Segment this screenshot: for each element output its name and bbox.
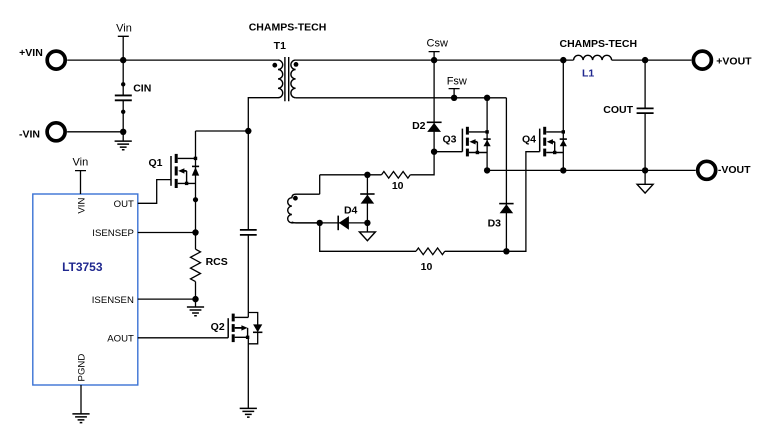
Q1 body diode — [192, 165, 199, 167]
wire secondary top rail (Csw) — [296, 59, 574, 61]
terminal -VOUT — [698, 161, 751, 179]
junction aux bottom / gate pulldown — [317, 220, 323, 226]
wire Q4 gate line (resistor to gate) — [445, 152, 540, 252]
svg-text:Csw: Csw — [427, 37, 448, 49]
junction Q3 source / -VOUT rail — [484, 167, 490, 173]
capacitor CIN — [115, 60, 151, 132]
wire Csw node down through D2 — [433, 60, 435, 152]
Q1 body arrow — [178, 168, 184, 173]
wire D2 node to Q3 gate — [434, 151, 462, 153]
junction Fsw — [451, 95, 457, 101]
Q3 body diode — [484, 138, 491, 140]
svg-text:Fsw: Fsw — [447, 76, 467, 88]
Q2 drain tap — [235, 316, 249, 318]
svg-text:Q2: Q2 — [211, 321, 225, 333]
Q2 source tap — [235, 336, 249, 338]
svg-text:ISENSEP: ISENSEP — [92, 228, 134, 239]
junction top line / clamp diode — [364, 172, 370, 178]
wire AOUT to Q2 gate — [138, 337, 228, 339]
wire Fsw corner down through D3 — [505, 98, 507, 252]
node Fsw — [447, 76, 467, 98]
svg-text:D3: D3 — [488, 217, 502, 229]
Q3 drain tap — [469, 131, 487, 133]
wire RCS bottom to ISENSEN/ground — [195, 282, 197, 307]
svg-text:-VOUT: -VOUT — [718, 164, 751, 176]
Q4 body tie — [554, 142, 556, 153]
aux winding (secondary bias) — [288, 194, 320, 223]
resistor 10 (Q4 gate) — [416, 248, 445, 273]
svg-text:Q3: Q3 — [442, 133, 456, 145]
T1 primary winding — [278, 60, 283, 98]
op-amp/controller U1 LT3753 — [33, 194, 138, 385]
Q1 body tie — [186, 171, 188, 184]
ground (open, output) — [644, 170, 646, 184]
svg-text:10: 10 — [392, 180, 404, 192]
wire gate network top line — [320, 174, 382, 176]
Q2 body tie — [247, 328, 249, 337]
node Csw — [427, 37, 448, 60]
Q4 channel bars — [543, 127, 546, 135]
junction -VOUT rail / COUT / ground — [642, 167, 648, 173]
Q4 source tap — [546, 152, 563, 154]
svg-text:Vin: Vin — [116, 23, 132, 35]
wire L1 to +VOUT — [612, 59, 692, 61]
resistor 10 (Q3 gate) — [382, 172, 411, 193]
svg-text:+VOUT: +VOUT — [716, 56, 752, 68]
svg-text:LT3753: LT3753 — [62, 260, 103, 274]
wire Q3 drain-source vertical — [486, 98, 488, 171]
junction +VOUT rail / COUT — [642, 57, 648, 63]
Q3 channel bars — [466, 127, 469, 135]
wire aux bottom lead through D4 — [292, 222, 368, 224]
wire ISENSEP to RCS top — [138, 232, 196, 234]
svg-text:OUT: OUT — [114, 199, 134, 210]
wire -VIN to CIN bottom — [67, 131, 123, 133]
Q1 source tap — [178, 182, 196, 184]
Q2 body arrow (points right) — [235, 327, 242, 329]
wire -VOUT rail — [487, 169, 696, 171]
svg-text:10: 10 — [421, 261, 433, 273]
svg-text:Q1: Q1 — [148, 157, 162, 169]
capacitor COUT — [603, 60, 653, 170]
terminal -VIN — [19, 123, 65, 141]
transistor Q2 (auxiliary MOSFET) — [211, 313, 263, 344]
Q1 drain tap — [178, 157, 196, 159]
Q3 gate line — [461, 129, 463, 152]
terminal +VIN — [19, 47, 65, 69]
junction D3 anode / gate resistor line — [503, 248, 509, 254]
ground (Q2 source) — [240, 408, 257, 417]
wire aux top lead up to gate network — [319, 175, 321, 194]
junction Q4 source / -VOUT rail — [560, 167, 566, 173]
svg-text:L1: L1 — [582, 67, 594, 79]
ground (open, gate network) — [366, 223, 368, 232]
Q2 gate line — [227, 318, 229, 338]
Q2 body diode branch — [248, 313, 257, 344]
wire snubber leg down to capacitor and Q2 — [247, 131, 249, 317]
node Q1 source dot — [193, 197, 198, 202]
svg-text:ISENSEN: ISENSEN — [92, 295, 134, 306]
aux winding dot — [293, 196, 298, 201]
wire OUT to Q1 gate — [138, 180, 171, 204]
wire Q2 source to ground — [247, 337, 249, 408]
transistor Q1 (primary MOSFET) — [148, 154, 199, 188]
svg-text:Vin: Vin — [73, 156, 89, 168]
svg-text:D2: D2 — [412, 120, 426, 132]
T1 core — [285, 57, 289, 101]
T1 secondary winding — [291, 60, 296, 98]
junction Fsw rail / Q3 drain — [484, 95, 490, 101]
svg-text:PGND: PGND — [77, 354, 88, 382]
transistor Q3 (sync rectifier) — [442, 127, 490, 157]
diode (clamp, vertical) — [360, 175, 374, 223]
wire aux down to Q4 gate resistor line — [320, 223, 416, 251]
node Vin (above LT3753) — [73, 156, 89, 194]
ground (input) — [122, 132, 124, 141]
transformer T1 — [249, 22, 327, 102]
junction primary return node — [245, 128, 251, 134]
wire +VIN rail to transformer primary — [67, 59, 278, 61]
junction Csw — [431, 57, 437, 63]
svg-text:Q4: Q4 — [522, 133, 536, 145]
svg-text:CHAMPS-TECH: CHAMPS-TECH — [560, 38, 638, 50]
junction ISENSEP/RCS — [192, 229, 198, 235]
wire ISENSEN to RCS bottom — [138, 298, 196, 300]
capacitor (snubber, unlabeled) — [240, 230, 257, 235]
diode D4 (points left) — [338, 205, 357, 231]
svg-text:RCS: RCS — [206, 256, 228, 268]
wire Q1 drain branch — [196, 130, 249, 132]
Q3 body tie — [476, 142, 478, 153]
junction ISENSEN/ground — [192, 296, 198, 302]
transistor Q4 (output sync MOSFET) — [522, 127, 567, 157]
Q1 gate line — [170, 156, 172, 186]
wire primary return (T1 bottom to snubber node) — [248, 98, 278, 131]
Q3 body arrow — [469, 139, 475, 144]
wire Q1 drain/source vertical (to RCS, ISENSE) — [195, 131, 197, 249]
diode D2 — [412, 120, 442, 132]
wire secondary bottom rail (Fsw) — [296, 97, 507, 99]
terminal +VOUT — [693, 51, 752, 69]
Q2 body diode (points down) — [253, 324, 262, 332]
T1 primary dot — [272, 63, 277, 68]
svg-text:COUT: COUT — [603, 104, 633, 116]
junction D4 / clamp diode / ground — [364, 220, 370, 226]
svg-text:+VIN: +VIN — [19, 47, 43, 59]
diode D3 — [488, 204, 514, 230]
T1 secondary dot — [294, 62, 299, 67]
inductor L1 — [560, 38, 638, 79]
resistor RCS — [191, 249, 228, 281]
svg-text:CHAMPS-TECH: CHAMPS-TECH — [249, 22, 327, 34]
Q1 channel bars — [175, 154, 178, 163]
Q4 gate line — [539, 129, 541, 152]
Q4 drain tap — [546, 131, 563, 133]
node Vin (input rail) — [116, 23, 132, 61]
junction top rail / Q4 drain / L1 — [560, 57, 566, 63]
Q4 body arrow — [547, 139, 553, 144]
svg-text:T1: T1 — [274, 40, 286, 52]
wire PGND stub — [80, 385, 82, 414]
wire resistor to D2 node — [410, 152, 434, 175]
Q4 body diode — [560, 138, 567, 140]
svg-text:D4: D4 — [344, 205, 358, 217]
svg-text:-VIN: -VIN — [19, 129, 40, 141]
junction input rail / CIN — [120, 57, 126, 63]
junction -VIN / CIN / ground — [120, 129, 126, 135]
junction D2 anode node — [431, 149, 437, 155]
svg-text:VIN: VIN — [76, 198, 87, 214]
svg-text:AOUT: AOUT — [107, 333, 134, 344]
ground (PGND) — [72, 414, 89, 423]
ground (current sense) — [187, 307, 204, 316]
Q2 channel bars — [232, 314, 235, 322]
Q3 source tap — [469, 152, 487, 154]
wire Q4 drain-source vertical — [562, 60, 564, 170]
svg-text:CIN: CIN — [133, 83, 151, 95]
